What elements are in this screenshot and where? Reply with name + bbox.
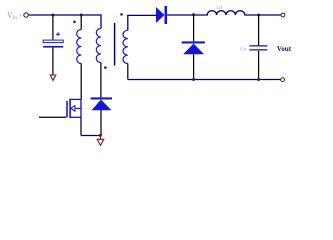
node primary winding tap [80,14,83,17]
ground port under C1 [50,75,56,80]
wire primary bottom rail [81,135,100,137]
transformer primary winding W1 [77,30,82,64]
diode D2 top pin [193,15,195,41]
ground port primary rail [97,135,104,145]
wire top rail corner to reset winding [100,14,102,28]
terminal Vout- [281,78,285,82]
winding W3 dot [120,13,123,16]
diode D3 anode pin [100,110,102,135]
winding W2 dot [104,66,107,69]
transformer core [114,23,116,66]
node input cap tap [51,14,54,17]
wire D1 to node [167,14,195,16]
terminal Vin+ [24,13,28,17]
diode D2 triangle [183,44,204,55]
wire top rail [29,14,101,16]
capacitor Co [249,45,267,50]
mosfet Q1 source wire [80,117,82,135]
node D1 cathode / D2 / Lo [192,13,195,16]
transformer secondary winding W3 [123,30,128,63]
diode D1 cathode bar [165,6,168,24]
capacitor C1 bottom pin [52,48,54,75]
capacitor C1 [43,40,63,48]
diode D1 triangle [156,7,165,23]
diode D3 cathode bar [91,97,112,99]
diode D2 cathode bar [182,41,205,43]
inductor Lo with wire [195,11,281,15]
transformer reset winding W2 [96,29,101,63]
capacitor Co bottom pin [258,51,260,80]
node D2 anode on bottom rail [192,78,195,81]
wire secondary top to D1 [127,14,156,16]
wire secondary bottom rail [128,79,281,81]
transformer reset winding W2 bottom pin [100,63,102,98]
diode D2 bottom pin [193,54,195,79]
mosfet Q1 gate stub wire [39,116,66,118]
svg-text:Vin +: Vin + [7,11,23,21]
capacitor Co top pin [258,15,260,45]
svg-text:Co: Co [240,46,246,52]
terminal Vout+ [281,13,285,17]
transformer secondary winding W3 bottom pin [127,64,129,80]
mosfet Q1 [67,99,81,118]
diode D3 triangle [92,100,112,111]
node primary ground [99,134,102,137]
node Co bottom on bottom rail [257,78,260,81]
svg-text:Vout: Vout [277,45,292,53]
winding W1 dot [73,21,76,24]
transformer primary winding W1 bottom pin / drain wire [80,64,82,100]
capacitor C1 plus sign [56,32,60,36]
capacitor C1 top pin [52,15,54,40]
node Lo to Co [257,14,260,17]
transformer secondary winding W3 top pin [127,15,129,30]
transformer primary winding W1 top pin [80,15,82,30]
